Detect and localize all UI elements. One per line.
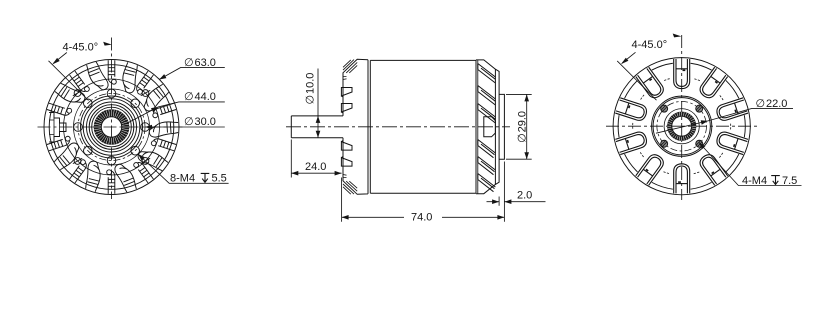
svg-text:74.0: 74.0: [411, 211, 432, 223]
outer circle: [44, 60, 179, 195]
radial slots x10: [615, 59, 748, 193]
dia63 leader: [159, 68, 225, 80]
dia30 leader: [145, 126, 225, 128]
svg-text:∅ 22.0: ∅ 22.0: [756, 98, 788, 110]
4x M4 holes: [696, 140, 703, 147]
right view: motor rear face: [606, 35, 758, 200]
8-M4 leader: [138, 154, 229, 183]
body: [370, 60, 476, 193]
hex nut: [484, 117, 496, 137]
centerline: [286, 126, 510, 128]
chamfer lines: [343, 60, 357, 73]
svg-text:5.5: 5.5: [212, 173, 227, 185]
left view: motor front face: [38, 38, 184, 200]
74 dim: [342, 162, 505, 222]
dia10 dim: [317, 69, 319, 138]
svg-text:4-45.0°: 4-45.0°: [63, 42, 99, 54]
4-M4 leader: [699, 143, 802, 186]
slot-ring inner circle: [74, 89, 150, 165]
rim arcs: [618, 63, 745, 189]
left annotations: [49, 53, 229, 184]
centerline horizontal: [606, 125, 758, 127]
front fins: [341, 88, 352, 98]
cooling hook slots x10: [118, 62, 141, 94]
svg-text:∅ 30.0: ∅ 30.0: [184, 116, 216, 128]
middle dimensions: [291, 69, 545, 222]
spoke dash marks: [633, 79, 731, 174]
24 dim: [291, 140, 341, 178]
svg-text:4-45.0°: 4-45.0°: [632, 39, 668, 51]
svg-text:∅ 10.0: ∅ 10.0: [305, 73, 317, 105]
stator dark ring: [94, 109, 130, 145]
svg-text:4-M4: 4-M4: [742, 175, 767, 187]
centerline vertical: [111, 38, 113, 200]
rear boss: [499, 94, 504, 159]
svg-text:∅ 29.0: ∅ 29.0: [517, 111, 529, 143]
rear fins: [478, 64, 496, 84]
front flange outline: [343, 59, 368, 194]
svg-text:7.5: 7.5: [782, 175, 797, 187]
bolt dashdot: [657, 101, 707, 151]
centerline vertical: [681, 35, 683, 200]
centerline horizontal: [38, 126, 184, 128]
depth symbol 4-M4: [771, 176, 780, 185]
middle view: side section: [286, 59, 510, 194]
center rings: [81, 96, 143, 158]
fin root line: [477, 60, 479, 193]
8x M4 holes on r=33.5: [141, 123, 150, 132]
wire exit connector at left: [49, 113, 66, 143]
rim circle: [49, 65, 174, 190]
hub circles: [652, 96, 712, 156]
outer circle: [613, 58, 750, 195]
45deg leader line: [49, 61, 89, 101]
circle r17.6: [664, 109, 699, 144]
dia29 dim: [506, 94, 532, 159]
svg-text:∅ 63.0: ∅ 63.0: [184, 57, 216, 69]
stator dark ring: [667, 112, 696, 141]
small steps under chamfer: [343, 77, 347, 178]
dia22 leader: [656, 109, 793, 134]
ladder vents x9 (skip 180 connector): [108, 60, 116, 84]
shaft: [291, 116, 343, 138]
depth symbol 8-M4: [201, 173, 210, 182]
shaft hole: [101, 117, 121, 137]
45deg leader: [617, 61, 656, 100]
bolt dashdot circle: [78, 94, 145, 161]
dia44 leader: [125, 102, 225, 125]
svg-text:8-M4: 8-M4: [170, 173, 195, 185]
mid circle: [64, 79, 160, 175]
rear flange outline: [476, 60, 495, 194]
shaft hole: [672, 116, 692, 136]
svg-text:2.0: 2.0: [517, 190, 532, 202]
svg-text:∅ 44.0: ∅ 44.0: [184, 91, 216, 103]
2.0 dim: [487, 197, 546, 206]
right annotations: [617, 52, 801, 185]
svg-text:24.0: 24.0: [305, 161, 326, 173]
screws x4 on r=48: [141, 90, 150, 97]
